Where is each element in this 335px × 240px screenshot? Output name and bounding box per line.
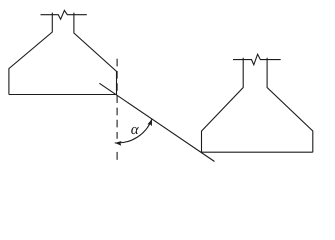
label alpha [131, 127, 139, 134]
left footing: right column side and right battered side and right edge [74, 13, 117, 95]
right footing: break line with zigzag [233, 54, 281, 65]
sloping ground line between footings [99, 83, 214, 161]
dashed vertical reference line (lower dash below arrow) [116, 152, 118, 160]
right footing: left column side and left battered side and left edge [202, 58, 244, 152]
right footing: bottom line [202, 151, 313, 153]
left footing: left column side and left battered side and left edge [9, 13, 52, 95]
left footing: break line with zigzag [41, 10, 87, 19]
right footing: right column side and right battered side and right edge [267, 58, 313, 152]
angle arc with arrowheads [115, 119, 152, 143]
left footing: bottom line [9, 94, 117, 96]
dashed vertical reference line (upper part) [116, 59, 118, 139]
